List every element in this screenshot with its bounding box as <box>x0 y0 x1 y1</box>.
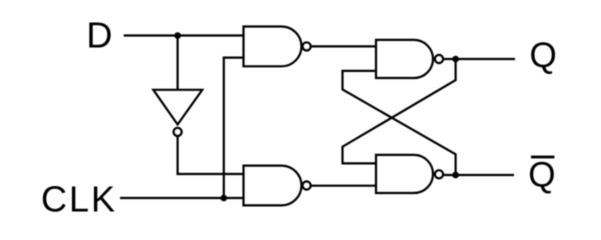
wire Q feedback to gate U4 upper input <box>343 59 456 163</box>
svg-text:Q: Q <box>528 155 555 194</box>
nand gate U3 output bubble <box>435 55 443 63</box>
wire U3 output to Q <box>443 58 515 60</box>
wire CLK to gate U2 <box>120 197 244 199</box>
inverter U5 output bubble <box>174 128 182 136</box>
wire D to gate U1 <box>124 34 244 36</box>
nand gate U2 <box>244 166 302 206</box>
wire Qbar feedback to gate U3 lower input <box>343 71 456 175</box>
node Qbar overline <box>531 156 554 159</box>
nand gate U2 output bubble <box>303 181 311 189</box>
node Qbar junction <box>452 172 459 179</box>
nand gate U1 output bubble <box>303 42 311 50</box>
node D junction <box>174 32 181 39</box>
wire CLK junction up to gate U1 lower input <box>224 58 244 198</box>
svg-text:D: D <box>86 14 112 55</box>
wire U4 output to Qbar <box>443 174 514 176</box>
nand gate U4 <box>376 155 433 193</box>
wire U1 output to gate U3 upper input <box>311 45 376 47</box>
nand gate U1 <box>244 27 302 67</box>
nand gate U3 <box>376 40 433 78</box>
node CLK junction <box>221 195 228 202</box>
inverter U5 <box>153 90 202 125</box>
nand gate U4 output bubble <box>435 170 443 178</box>
wire U2 output to gate U4 lower input <box>311 185 376 187</box>
node Q junction <box>452 56 459 63</box>
svg-text:CLK: CLK <box>41 178 117 219</box>
svg-text:Q: Q <box>530 36 557 75</box>
wire inverter output to gate U2 upper input <box>178 136 244 174</box>
wire D junction down to inverter <box>177 36 179 90</box>
